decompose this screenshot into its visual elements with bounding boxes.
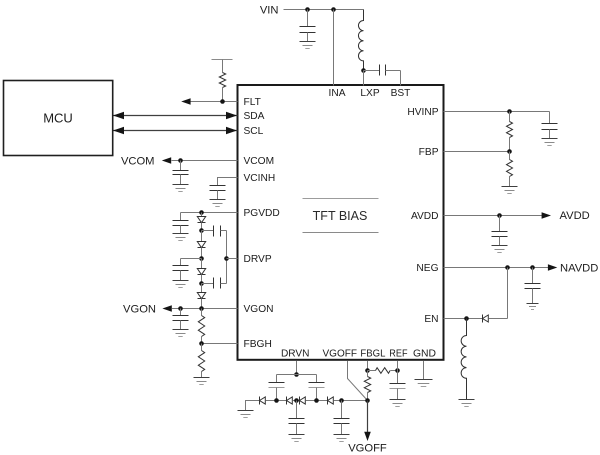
wire VCINH [218, 178, 238, 186]
node VGOFF junction [365, 398, 370, 403]
wire REF pin [397, 361, 399, 384]
resistor R-FBGH1 [201, 309, 203, 316]
wire FBGL pin [367, 361, 369, 371]
ground C-VCOM [173, 185, 189, 192]
node VGON chain junction [199, 306, 204, 311]
resistor R-FBP2 [509, 152, 511, 160]
svg-text:MCU: MCU [43, 111, 73, 126]
power rail FLT pullup [212, 59, 233, 61]
capacitor C-HVINP [549, 112, 551, 124]
capacitor C-FLY1 [202, 230, 214, 232]
node HVINP junction [507, 109, 512, 114]
MCU box [4, 81, 113, 156]
node FBGH junction [199, 341, 204, 346]
ground C-VIN [300, 42, 316, 49]
node VGON cap junction [178, 306, 183, 311]
capacitor C-PUMP-R [316, 375, 318, 383]
svg-text:SCL: SCL [244, 126, 264, 137]
capacitor C-PUMP-D [341, 401, 343, 419]
inductor L-EN [461, 319, 466, 400]
capacitor C-VCINH [210, 185, 226, 187]
node NAVDD cap junction [530, 265, 535, 270]
node PGVDD junction [199, 210, 204, 215]
node VCOM junction [178, 158, 183, 163]
wire D2-D3 node to cap [181, 258, 202, 260]
svg-text:VIN: VIN [260, 5, 279, 17]
ground C-VCINH [210, 200, 226, 207]
capacitor C-VIN [307, 10, 309, 27]
diode D7 [299, 397, 301, 405]
node VIN cap junction [305, 7, 310, 12]
svg-text:VGON: VGON [244, 304, 274, 315]
wire EN [444, 318, 483, 320]
capacitor C-PUMP-B [296, 401, 298, 419]
resistor R-FBGL-REF [368, 370, 376, 372]
wire FBGH [202, 343, 238, 345]
ground C-REF [390, 400, 406, 407]
node FLT junction [220, 99, 225, 104]
wire LXP pin [363, 71, 365, 86]
ground pump input [246, 401, 260, 411]
wire NEG to diode [507, 268, 509, 319]
svg-text:NEG: NEG [416, 263, 438, 274]
wire HVINP [444, 111, 550, 113]
resistor R-FBGH2 [201, 344, 203, 351]
arrow SCL to IC [226, 127, 237, 134]
ground L-EN [459, 400, 475, 407]
ground C-PUMP-B [289, 435, 305, 442]
diode D1 [201, 213, 203, 217]
wire DRVP pin [227, 258, 238, 260]
node pump-B junction [294, 398, 299, 403]
ground C-HVINP [542, 139, 558, 146]
inductor L1 [358, 10, 363, 71]
wire VGON [172, 308, 238, 310]
node pump-C junction [314, 398, 319, 403]
diode D6 [286, 397, 288, 405]
svg-text:HVINP: HVINP [407, 107, 438, 118]
wire VCOM [172, 160, 238, 162]
arrow SCL to MCU [113, 127, 124, 134]
svg-text:LXP: LXP [360, 88, 379, 99]
wire INA pin [333, 10, 335, 86]
capacitor C-AVDD [499, 216, 501, 232]
ground R-FBGH2 [194, 378, 210, 385]
svg-text:TFT BIAS: TFT BIAS [313, 209, 368, 223]
wire BST pin [400, 71, 402, 86]
wire VIN [284, 9, 364, 11]
arrow AVDD out [542, 212, 551, 219]
ground C-VGON [173, 330, 189, 337]
arrow SDA to IC [226, 112, 237, 119]
svg-text:DRVP: DRVP [244, 254, 272, 265]
svg-text:VGON: VGON [123, 304, 156, 316]
svg-text:SDA: SDA [244, 111, 265, 122]
arrow VGON out [162, 305, 171, 312]
svg-text:PGVDD: PGVDD [244, 208, 280, 219]
node NEG junction [505, 265, 510, 270]
node D3-D4 junction [199, 281, 204, 286]
wire VGOFF out [367, 401, 369, 433]
diode D3 [201, 259, 203, 269]
diode D5 [259, 397, 261, 405]
wire DRVN header [277, 374, 317, 376]
svg-text:FBGL: FBGL [360, 348, 385, 359]
wire DRVN pin [296, 361, 298, 375]
arrow SDA to MCU [113, 112, 124, 119]
svg-text:NAVDD: NAVDD [560, 263, 598, 275]
svg-text:FBP: FBP [419, 147, 439, 158]
svg-text:VCOM: VCOM [244, 156, 275, 167]
svg-text:FBGH: FBGH [244, 339, 272, 350]
wire GND pin [423, 361, 425, 380]
ground C-NAVDD [527, 304, 539, 310]
diode D4 [201, 284, 203, 293]
diode D2 [201, 231, 203, 242]
ground C-PUMP-D [334, 435, 350, 442]
svg-text:EN: EN [424, 314, 438, 325]
wire PGVDD [181, 212, 238, 214]
node AVDD junction [497, 213, 502, 218]
svg-text:VGOFF: VGOFF [348, 443, 387, 455]
svg-text:DRVN: DRVN [281, 348, 310, 359]
resistor R-VGOFF [367, 371, 369, 377]
svg-text:VCOM: VCOM [121, 156, 155, 168]
arrow VGOFF down [364, 432, 371, 441]
svg-text:AVDD: AVDD [411, 211, 439, 222]
wire NEG [444, 267, 549, 269]
svg-text:VCINH: VCINH [244, 173, 276, 184]
wire FBP [444, 151, 510, 153]
node EN junction [464, 316, 469, 321]
capacitor C-BST [364, 70, 380, 72]
node pump-D junction [339, 398, 344, 403]
diode D8 [327, 397, 329, 405]
svg-text:AVDD: AVDD [560, 210, 590, 222]
svg-text:INA: INA [329, 88, 346, 99]
capacitor C-VCOM [180, 161, 182, 171]
svg-text:REF: REF [389, 348, 407, 359]
node DRVP junction [224, 256, 229, 261]
wire AVDD [444, 215, 543, 217]
node INA junction [331, 7, 336, 12]
arrow FLT out [181, 98, 190, 105]
wire VGOFF pin [348, 361, 368, 401]
ground GND pin [415, 380, 433, 387]
node pump-A junction [274, 398, 279, 403]
capacitor C-VGON [180, 309, 182, 316]
capacitor C-REF [390, 383, 406, 385]
arrow VCOM out [162, 157, 171, 164]
resistor R-FLT [222, 60, 224, 73]
capacitor C-NAVDD [532, 268, 534, 284]
capacitor C-FLY2 [202, 283, 214, 285]
svg-text:FLT: FLT [244, 97, 261, 108]
capacitor C-PGVDD [180, 213, 182, 221]
node FBGL junction [365, 368, 370, 373]
node D2-D3 junction [199, 256, 204, 261]
svg-text:BST: BST [391, 88, 411, 99]
capacitor C-PUMP-L [276, 375, 278, 383]
node DRVN junction [294, 372, 299, 377]
resistor R-FBP1 [509, 112, 511, 122]
ground R-FBP2 [502, 187, 518, 194]
svg-text:GND: GND [413, 348, 436, 359]
svg-text:VGOFF: VGOFF [323, 348, 358, 359]
diode D-EN [482, 315, 484, 323]
wire SDA [114, 115, 238, 117]
IC U1 TFT BIAS [238, 85, 444, 360]
wire FLT [191, 101, 238, 103]
capacitor C-MID [180, 259, 182, 266]
ground C-PGVDD [173, 234, 189, 241]
wire SCL [114, 130, 238, 132]
node D1-D2 junction [199, 228, 204, 233]
node REF junction [395, 368, 400, 373]
node LXP junction [361, 68, 366, 73]
ground C-MID [173, 281, 189, 288]
node FBP junction [507, 149, 512, 154]
arrow NAVDD out [548, 264, 557, 271]
ground C-AVDD [492, 246, 508, 253]
